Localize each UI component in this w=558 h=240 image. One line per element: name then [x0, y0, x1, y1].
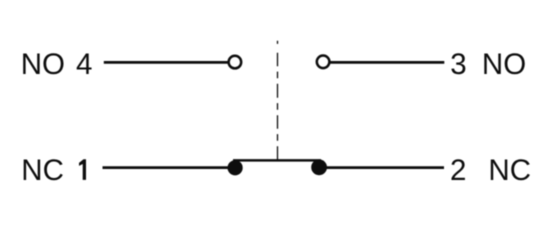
svg-text:NO: NO	[21, 48, 65, 81]
wire: NO4 lead to left NO contact	[104, 61, 228, 64]
wire: right NO contact to terminal 3	[331, 61, 445, 64]
wire: NC1 lead to left NC contact	[103, 166, 231, 169]
NO contact left (open circle)	[229, 56, 242, 69]
svg-text:3: 3	[450, 48, 466, 81]
movable blade bridging NC contacts	[233, 159, 321, 162]
operation axis centerline (dashed, long-short pattern)	[277, 41, 279, 160]
NO contact right (open circle)	[317, 56, 330, 69]
svg-text:NC: NC	[21, 154, 64, 187]
NC contact left (filled dot)	[228, 160, 243, 175]
svg-text:4: 4	[76, 48, 92, 81]
wire: right NC contact to terminal 2	[325, 166, 444, 169]
NC contact right (filled dot)	[311, 159, 327, 175]
pin number 1 (drawn path, no foot serif)	[79, 159, 86, 180]
svg-text:NC: NC	[488, 154, 531, 187]
svg-text:2: 2	[450, 154, 466, 187]
svg-text:NO: NO	[482, 48, 526, 81]
